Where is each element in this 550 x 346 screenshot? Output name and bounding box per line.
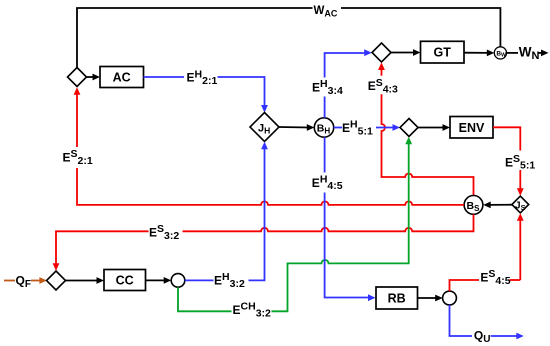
- wire E_S_4:3 (red, BS top line up to J4) with hop over blue: [382, 68, 474, 196]
- block GT: [421, 41, 465, 63]
- wire E_S_5:1 (red, ENV to JS): [493, 127, 520, 189]
- wire W_N (black output): [507, 50, 549, 57]
- svg-text:AC: AC: [113, 71, 131, 85]
- node B4 (circle bifurcation after RB): [443, 291, 457, 305]
- wire J3 to ENV with arrow: [418, 124, 450, 131]
- wire Q_F (orange fuel input): [4, 280, 42, 282]
- wire J4 to GT with arrow: [391, 49, 421, 56]
- wire J1 to AC with arrow: [87, 74, 101, 81]
- svg-text:GT: GT: [434, 46, 452, 60]
- wire E_S_4:5 (red, circle up to JS bottom): [450, 280, 521, 291]
- block CC: [104, 270, 146, 291]
- wire E_H_2:1 (blue, AC to JH): [144, 77, 265, 107]
- node B3 (circle bifurcation after CC): [171, 274, 185, 288]
- svg-text:RB: RB: [388, 292, 406, 306]
- wire E_S_2:1 (red, BS left to J1 bottom) with hops: [77, 93, 464, 205]
- block ENV: [450, 117, 493, 139]
- wire GT to BW with arrow: [464, 50, 494, 57]
- node J2 (diamond mixer feeding CC): [47, 271, 66, 290]
- wire Q_U (blue useful-heat output): [450, 305, 519, 336]
- block AC: [100, 67, 144, 88]
- wire JS to BS with arrow: [483, 202, 512, 209]
- wire CC to mixer circle with arrow: [146, 277, 172, 284]
- wire E_H_4:5 (blue, BH down to RB): [325, 137, 370, 297]
- wire E_H_3:4 (blue, BH up to J4): [325, 53, 366, 118]
- wire RB to mixer circle with arrow: [418, 295, 443, 302]
- node BW (circle bifurcation, work): [494, 47, 506, 59]
- node J4 (diamond mixer feeding GT): [372, 43, 391, 62]
- wire E_S_3:2 (red, BS bottom to J2 top) with hops: [56, 214, 474, 264]
- wire E_H_5:1 (blue, BH to J3): [334, 127, 395, 129]
- block RB: [376, 287, 418, 309]
- node BS (circle bifurcation, steam): [464, 196, 483, 215]
- node JS (diamond junction, steam): [512, 196, 529, 213]
- wire E_H_3:2 (blue, circle to JH bottom): [185, 147, 265, 280]
- node J1 (diamond mixer feeding AC): [68, 68, 87, 87]
- wire E_S_4:5 red arrow into JS bottom: [519, 220, 521, 281]
- wire JH to BH with arrow: [279, 124, 314, 131]
- svg-text:BW: BW: [496, 50, 506, 58]
- svg-text:JS: JS: [515, 201, 526, 213]
- wire W_AC (black, top feedback): [77, 8, 500, 68]
- svg-text:ENV: ENV: [459, 121, 485, 135]
- wire E_CH_3:2 (green, circle down and to J3 bottom) with hop over blue: [178, 143, 409, 312]
- node J3 (diamond mixer feeding ENV): [400, 119, 418, 137]
- svg-text:CC: CC: [116, 274, 134, 288]
- wire J2 to CC with arrow: [66, 277, 105, 284]
- node BH (circle bifurcation, heat): [314, 118, 333, 137]
- node JH (diamond junction, heat): [250, 113, 279, 142]
